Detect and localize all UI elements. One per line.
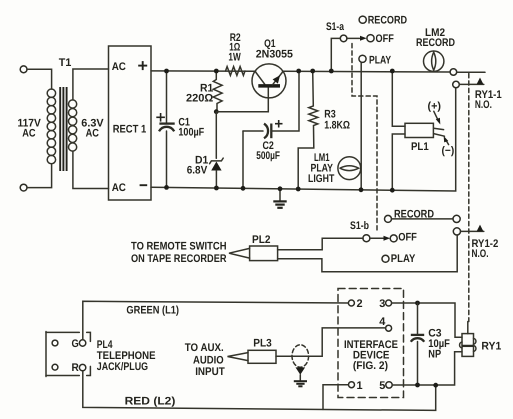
svg-text:RY1: RY1: [481, 341, 501, 353]
svg-text:N.O.: N.O.: [472, 248, 489, 260]
svg-text:(−): (−): [442, 145, 455, 157]
svg-text:PLAY: PLAY: [369, 54, 392, 66]
transistor Q1: [252, 64, 286, 98]
svg-text:500µF: 500µF: [256, 150, 280, 162]
node C3 top: [415, 301, 420, 306]
svg-text:220Ω: 220Ω: [186, 92, 213, 104]
node PL1 bottom: [390, 188, 395, 193]
capacitor C2: [243, 71, 299, 188]
svg-text:1: 1: [357, 380, 363, 392]
node R3 top: [310, 69, 315, 74]
resistor R2: [226, 67, 246, 76]
svg-text:1W: 1W: [228, 51, 241, 63]
ground shield: [294, 367, 307, 386]
svg-text:S1-a: S1-a: [326, 21, 345, 33]
wire pin3 to relay: [392, 303, 462, 337]
svg-text:3: 3: [379, 298, 385, 310]
lamp LM2: [424, 51, 444, 71]
linkage RY1 dashed: [468, 74, 470, 322]
svg-text:AC: AC: [22, 128, 35, 140]
relay contact RY1-1: [450, 69, 485, 88]
svg-text:OFF: OFF: [398, 231, 417, 243]
interface pin 3: [379, 298, 391, 310]
svg-text:R: R: [72, 362, 79, 374]
node C2 bottom: [241, 186, 246, 191]
svg-text:1.8KΩ: 1.8KΩ: [324, 119, 350, 131]
node base junction: [214, 109, 219, 114]
input terminal bottom: [20, 184, 27, 191]
plug PL3: [228, 350, 277, 363]
svg-text:(FIG. 2): (FIG. 2): [353, 360, 388, 372]
interface device box: [338, 289, 404, 398]
rectifier RECT 1: [109, 46, 152, 200]
svg-text:PLAY: PLAY: [391, 253, 416, 265]
svg-text:JACK/PLUG: JACK/PLUG: [97, 361, 148, 373]
svg-text:T1: T1: [59, 57, 72, 69]
wire play drop: [360, 62, 362, 190]
svg-text:(+): (+): [428, 101, 442, 113]
resistor R3: [298, 71, 318, 188]
svg-text:2N3055: 2N3055: [256, 49, 293, 61]
node S1-a pole: [329, 69, 334, 74]
svg-text:OFF: OFF: [376, 33, 395, 45]
label (-) with arrow: [442, 136, 455, 157]
interface pin 5: [379, 380, 392, 392]
node ground: [278, 186, 283, 191]
linkage S1 dashed: [352, 44, 377, 233]
node D1 bottom: [214, 186, 219, 191]
capacitor C1: [156, 71, 174, 187]
input terminal top: [20, 66, 27, 73]
svg-text:AUDIO: AUDIO: [193, 354, 224, 366]
svg-text:G: G: [72, 338, 79, 350]
plug PL2: [229, 246, 278, 261]
top supply rail: [151, 70, 256, 72]
wire base: [216, 87, 268, 111]
svg-text:RED (L2): RED (L2): [125, 396, 176, 408]
switch S1-b: [363, 215, 397, 262]
svg-text:GREEN (L1): GREEN (L1): [126, 304, 179, 316]
svg-text:N.O.: N.O.: [475, 99, 492, 111]
interface pin 1: [349, 380, 363, 392]
label (+) with arrow: [428, 101, 442, 125]
wire pin4 audio: [276, 328, 386, 356]
svg-text:2: 2: [357, 298, 363, 310]
svg-text:LIGHT: LIGHT: [308, 173, 335, 185]
svg-text:PL1: PL1: [411, 141, 429, 153]
wire pin1 jog: [323, 385, 349, 410]
svg-text:100µF: 100µF: [178, 127, 204, 139]
svg-text:AC: AC: [86, 128, 99, 140]
node C3 bottom: [415, 383, 420, 388]
svg-text:RECORD: RECORD: [368, 14, 407, 26]
capacitor C3: [411, 303, 424, 385]
wire primary bottom: [27, 164, 52, 188]
node C1 bottom: [164, 185, 169, 190]
wire green L1: [83, 301, 349, 340]
svg-text:NP: NP: [428, 348, 441, 360]
svg-text:PL3: PL3: [253, 338, 271, 350]
node R1 top: [214, 69, 219, 74]
jack PL4 contacts: [52, 338, 86, 374]
transformer T1: [47, 87, 76, 171]
svg-text:AC: AC: [112, 182, 126, 194]
resistor R1: [213, 71, 222, 112]
interface pin 2: [348, 298, 362, 310]
node emitter top: [296, 69, 301, 74]
relay coil RY1: [460, 322, 476, 357]
ground main: [273, 189, 286, 208]
svg-text:RECORD: RECORD: [416, 37, 455, 49]
wire secondary top: [73, 69, 109, 100]
wire S1-b pole to PL2: [278, 238, 364, 250]
svg-text:AC: AC: [112, 61, 126, 73]
node R3 bottom: [296, 187, 301, 192]
svg-text:INPUT: INPUT: [195, 366, 225, 378]
svg-text:4: 4: [379, 316, 386, 328]
svg-text:RECT 1: RECT 1: [113, 123, 147, 135]
zener D1: [210, 112, 224, 188]
svg-text:5: 5: [379, 380, 385, 392]
shield ellipse: [292, 345, 309, 367]
node play drop bottom: [359, 187, 364, 192]
wire pin5 common: [392, 352, 462, 385]
lamp LM1: [338, 157, 361, 180]
svg-text:TO AUX.: TO AUX.: [185, 342, 224, 354]
plug PL1: [392, 71, 444, 190]
wire red L2: [83, 371, 436, 411]
svg-text:PL2: PL2: [252, 234, 271, 246]
relay contact RY1-2: [453, 215, 484, 235]
node PL1 top: [390, 69, 395, 74]
bottom ground rail: [151, 88, 456, 191]
wire primary top: [27, 69, 52, 89]
svg-text:6.8V: 6.8V: [187, 165, 208, 177]
node C1 top: [164, 69, 169, 74]
svg-text:TO REMOTE SWITCH: TO REMOTE SWITCH: [131, 240, 227, 252]
svg-text:S1-b: S1-b: [350, 220, 369, 232]
wire secondary bottom: [73, 151, 109, 188]
wire record to RY1-2: [392, 218, 454, 220]
wire PL2 sleeve to RY1-2: [278, 235, 458, 272]
node red junction: [433, 383, 438, 388]
jack PL4: [46, 332, 90, 377]
svg-text:ON TAPE RECORDER: ON TAPE RECORDER: [131, 253, 227, 265]
switch S1-a: [331, 16, 374, 71]
interface pin 4: [379, 316, 391, 331]
